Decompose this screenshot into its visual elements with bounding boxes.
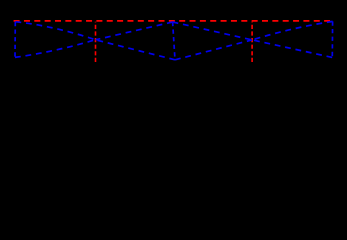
blue brace: top-right corner to node C2 (bowed up) [252, 21, 333, 40]
red vertical member V1 at x=95.5 [95, 22, 97, 62]
blue brace: top-middle to node C2 [173, 22, 253, 40]
blue left post [14, 22, 16, 57]
blue brace: bottom-middle to node C1 [96, 40, 176, 60]
red top chord (undeformed) [14, 20, 332, 22]
blue brace: bottom-right corner to node C2 [252, 40, 332, 58]
blue brace: top-middle to node C1 [96, 22, 173, 40]
blue middle post (tilted) [173, 22, 175, 60]
red vertical member V2 at x=252 [251, 22, 253, 62]
blue right post [331, 21, 333, 57]
blue brace: top-left corner to node C1 (bowed up) [16, 22, 96, 40]
blue brace: bottom-middle to node C2 [175, 40, 252, 60]
blue brace: bottom-left corner to node C1 (bowed down) [15, 40, 96, 58]
